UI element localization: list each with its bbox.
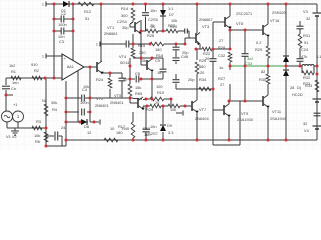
node grn-l bbox=[229, 65, 232, 68]
svg-text:20p: 20p bbox=[188, 77, 195, 82]
node top-G bbox=[196, 3, 199, 6]
node y49c bbox=[229, 48, 232, 51]
wire term stub y122 bbox=[94, 121, 99, 123]
svg-text:VT5: VT5 bbox=[114, 93, 121, 98]
wire d2 stem2 bbox=[162, 16, 164, 32]
resistor R5 bbox=[44, 132, 48, 142]
wire VT1 base bbox=[130, 26, 135, 28]
node y66f bbox=[316, 65, 319, 68]
wire R32 leg left bbox=[301, 66, 303, 73]
svg-text:51: 51 bbox=[85, 16, 89, 21]
svg-text:R22: R22 bbox=[168, 23, 175, 28]
wire V1 top bbox=[5, 95, 7, 111]
svg-text:R26: R26 bbox=[147, 33, 154, 38]
node top-F bbox=[162, 3, 165, 6]
svg-text:R33: R33 bbox=[305, 83, 312, 88]
wire x213 rail bbox=[212, 22, 214, 59]
wire row y146 bbox=[46, 145, 66, 147]
wire VT6 emitter drop bbox=[151, 72, 153, 79]
wire x176 stem2 bbox=[175, 74, 177, 79]
capacitor C5 bbox=[81, 109, 83, 116]
svg-text:10k: 10k bbox=[34, 133, 40, 138]
wire VT2 up link bbox=[143, 98, 146, 101]
svg-text:C3: C3 bbox=[59, 39, 64, 44]
wire C6 leg down bbox=[61, 136, 63, 146]
wire c12 stem bbox=[145, 4, 147, 12]
wire row y58 bbox=[133, 57, 163, 59]
wire net C33 (green) bbox=[230, 65, 286, 67]
svg-text:C8: C8 bbox=[135, 71, 140, 76]
svg-text:R19: R19 bbox=[157, 90, 164, 95]
svg-text:VT16: VT16 bbox=[270, 18, 279, 23]
wire C30 out bbox=[187, 30, 189, 32]
svg-text:Cn: Cn bbox=[11, 86, 16, 91]
wire R31 chain bbox=[299, 29, 301, 34]
wire C30 jog bbox=[188, 31, 190, 38]
svg-text:100n: 100n bbox=[58, 22, 67, 27]
wire row y44 right bbox=[164, 43, 185, 45]
wire C2 link right bbox=[64, 18, 73, 20]
wire row y122 bbox=[66, 121, 80, 123]
svg-text:R2: R2 bbox=[34, 68, 39, 73]
wire VT16e drop bbox=[267, 36, 269, 46]
resistor R35 bbox=[199, 87, 211, 91]
node top-A bbox=[53, 3, 56, 6]
wire row y99 mid bbox=[146, 98, 150, 100]
wire V bottom row bbox=[6, 122, 8, 128]
svg-text:0.2: 0.2 bbox=[256, 40, 261, 45]
wire row y122b bbox=[90, 121, 94, 123]
svg-text:C2S5: C2S5 bbox=[148, 17, 158, 22]
svg-text:C2S7: C2S7 bbox=[148, 131, 158, 136]
wire row y112 bbox=[66, 111, 79, 113]
svg-text:D9: D9 bbox=[167, 123, 172, 128]
svg-text:910: 910 bbox=[31, 62, 38, 67]
node y30b bbox=[244, 29, 247, 32]
resistor R21 bbox=[150, 104, 161, 108]
resistor R2 bbox=[32, 76, 42, 80]
diode D4 bbox=[283, 70, 289, 76]
node c2l bbox=[53, 18, 56, 21]
svg-text:D8: D8 bbox=[84, 124, 89, 129]
wire VT5 emitter drop bbox=[199, 44, 201, 49]
wire row y106b bbox=[161, 105, 168, 107]
wire C1 stem2 bbox=[5, 90, 7, 95]
wire d2 stem bbox=[162, 4, 164, 11]
wire R5 rail bbox=[45, 128, 47, 146]
wire VT9 collector bbox=[228, 101, 230, 104]
resistor R24 bbox=[108, 78, 112, 88]
wire left cap rail x54 bbox=[53, 4, 55, 78]
svg-text:C46: C46 bbox=[181, 54, 188, 59]
capacitor C8 bbox=[135, 76, 137, 83]
node bot-e bbox=[196, 139, 199, 142]
svg-text:1k2: 1k2 bbox=[9, 63, 15, 68]
wire C1 stem bbox=[5, 78, 7, 85]
wire vt8 coll bbox=[229, 14, 231, 16]
wire C stem x122 bbox=[121, 73, 123, 78]
resistor R26 bbox=[146, 29, 158, 33]
wire bottom bus bbox=[66, 139, 317, 141]
wire x141 rail bbox=[140, 31, 142, 65]
wire x163 drop2 bbox=[162, 132, 164, 140]
node y106b bbox=[162, 105, 165, 108]
node grn-r bbox=[267, 65, 270, 68]
wire row y49 bbox=[196, 48, 202, 50]
capacitor C10 bbox=[160, 68, 167, 70]
wire L1 right bbox=[314, 65, 317, 67]
wire R17 bot bbox=[132, 138, 134, 140]
svg-text:0D14: 0D14 bbox=[120, 60, 130, 65]
capacitor C3 bbox=[60, 28, 62, 35]
svg-text:R24: R24 bbox=[96, 77, 104, 82]
svg-text:V1 V2: V1 V2 bbox=[6, 134, 17, 139]
wire row y73 bbox=[101, 72, 122, 74]
capacitor C4 bbox=[81, 95, 83, 102]
wire x163 link bbox=[162, 58, 164, 69]
capacitor C9 bbox=[125, 41, 127, 48]
node y44m bbox=[149, 43, 152, 46]
svg-text:HC2Ω: HC2Ω bbox=[292, 92, 303, 97]
resistor R14 bbox=[131, 8, 135, 20]
node r32r bbox=[316, 73, 319, 76]
diode D9 bbox=[160, 125, 166, 131]
node vt1c bbox=[140, 30, 143, 33]
node y66e bbox=[299, 65, 302, 68]
resistor R31 bbox=[298, 34, 302, 48]
capacitor C1 bbox=[2, 85, 10, 87]
wire C27 stem2 bbox=[145, 132, 147, 140]
wire VT4 emitter drop bbox=[100, 72, 102, 73]
wire row y79b bbox=[140, 78, 163, 80]
wire mid row y66 bbox=[286, 65, 300, 67]
svg-text:2N6401: 2N6401 bbox=[95, 103, 109, 108]
svg-text:30k: 30k bbox=[51, 100, 57, 105]
svg-text:2N5401: 2N5401 bbox=[110, 100, 124, 105]
svg-text:2N6661: 2N6661 bbox=[104, 31, 118, 36]
resistor R15 bbox=[131, 48, 135, 58]
transistor VT16 bbox=[262, 25, 264, 35]
svg-text:R65: R65 bbox=[135, 91, 142, 96]
svg-text:1u: 1u bbox=[157, 70, 161, 75]
wire x230 rail4 bbox=[229, 84, 231, 101]
wire x230 rail2 bbox=[229, 62, 231, 66]
wire R14 jog bbox=[130, 22, 133, 24]
battery V4 bbox=[313, 125, 321, 127]
node r2r bbox=[44, 77, 47, 80]
node y99l bbox=[145, 98, 148, 101]
wire y44 to base bbox=[184, 38, 186, 44]
wire L1 left bbox=[300, 65, 302, 67]
svg-text:27: 27 bbox=[219, 38, 223, 43]
svg-text:C33: C33 bbox=[245, 61, 252, 66]
wire row y128 bbox=[7, 127, 46, 129]
wire input term wire bbox=[46, 55, 62, 57]
capacitor C11 bbox=[242, 53, 249, 55]
svg-text:230: 230 bbox=[139, 50, 146, 55]
svg-text:VT4: VT4 bbox=[119, 54, 127, 59]
wire C6 leg right bbox=[59, 135, 63, 137]
capacitor C2 bbox=[60, 16, 62, 23]
wire x268 rail bbox=[267, 58, 269, 66]
wire x130 rail mid bbox=[129, 58, 131, 84]
node y58m bbox=[151, 57, 154, 60]
wire x66 join bbox=[65, 140, 67, 146]
transistor VT9 bbox=[223, 105, 225, 115]
wire x245 rail bbox=[244, 30, 246, 54]
diode D2 bbox=[160, 10, 166, 16]
svg-text:1en: 1en bbox=[12, 80, 19, 85]
node y79c bbox=[151, 78, 154, 81]
diode D5 bbox=[81, 119, 87, 125]
svg-text:R12: R12 bbox=[84, 9, 91, 14]
wire VT6 base bbox=[141, 64, 147, 66]
wire VT5 collector bbox=[196, 4, 198, 33]
node y66d bbox=[285, 65, 288, 68]
capacitor C13 bbox=[297, 25, 304, 27]
wire V2 bottom bbox=[17, 122, 19, 128]
svg-text:R34: R34 bbox=[199, 77, 207, 82]
wire x176 stem bbox=[175, 44, 177, 47]
wire x152 drop bbox=[151, 79, 153, 99]
node opamp-out bbox=[89, 66, 92, 69]
node bot-a bbox=[132, 139, 135, 142]
svg-text:R1: R1 bbox=[11, 69, 16, 74]
wire x286 rail2 bbox=[285, 78, 287, 140]
wire x268 upper bbox=[267, 4, 269, 24]
svg-text:R25: R25 bbox=[199, 58, 206, 63]
wire row y79 bbox=[130, 78, 135, 80]
node y99r bbox=[170, 98, 173, 101]
svg-text:1: 1 bbox=[42, 55, 44, 59]
wire R31 chain2 bbox=[299, 48, 301, 58]
capacitor C32 bbox=[210, 58, 217, 60]
diode D3 bbox=[283, 56, 289, 62]
wire wrap down bbox=[239, 101, 241, 145]
svg-text:100n: 100n bbox=[80, 100, 89, 105]
resistor R29 bbox=[266, 46, 270, 58]
capacitor C17 bbox=[173, 46, 180, 48]
transistor VT5 bbox=[195, 33, 197, 43]
svg-text:2N6404: 2N6404 bbox=[195, 116, 209, 121]
node y122a bbox=[65, 121, 68, 124]
wire opamp out bbox=[84, 66, 97, 68]
source V1 bbox=[2, 111, 13, 122]
wire x133 rail bbox=[132, 34, 134, 48]
wire C6 leg top bbox=[46, 135, 54, 137]
node y101a bbox=[228, 100, 231, 103]
transistor VT1 bbox=[134, 22, 136, 32]
node y79a bbox=[129, 78, 132, 81]
node x130y66 bbox=[129, 65, 132, 68]
svg-text:V4: V4 bbox=[304, 128, 310, 133]
node bot-b bbox=[145, 139, 148, 142]
wire cap2 to node bbox=[129, 43, 133, 45]
svg-text:12: 12 bbox=[87, 130, 91, 135]
battery V5 bbox=[313, 98, 321, 100]
svg-text:R4: R4 bbox=[52, 107, 58, 112]
node y44c bbox=[175, 43, 178, 46]
wire row y31 mid bbox=[158, 30, 166, 32]
wire C27 stem bbox=[145, 106, 147, 129]
node in-minus bbox=[53, 77, 56, 80]
resistor R16 bbox=[128, 84, 132, 96]
svg-text:1: 1 bbox=[96, 43, 98, 47]
source V2 bbox=[13, 111, 24, 122]
svg-text:C32: C32 bbox=[218, 53, 225, 58]
node y30a bbox=[229, 29, 232, 32]
svg-text:VT2: VT2 bbox=[96, 96, 103, 101]
capacitor C30 bbox=[184, 29, 186, 34]
wire VT2 down tail bbox=[142, 107, 144, 111]
wire diode row y122 link bbox=[84, 121, 88, 123]
svg-text:Mp: Mp bbox=[123, 76, 128, 81]
svg-text:C24: C24 bbox=[301, 47, 309, 52]
wire R4 rail bbox=[45, 78, 47, 128]
ground bbox=[11, 130, 19, 132]
wire x163 link2 bbox=[162, 72, 164, 79]
svg-text:10k: 10k bbox=[140, 58, 146, 63]
wire x176 mid bbox=[175, 51, 177, 58]
resistor R3 bbox=[32, 126, 42, 130]
capacitor C6 bbox=[54, 132, 56, 141]
wire C2 link left bbox=[54, 18, 61, 20]
node y140l bbox=[65, 139, 68, 142]
svg-text:+1: +1 bbox=[13, 102, 17, 107]
wire row y98 bbox=[66, 97, 81, 99]
transistor VT6 bbox=[146, 60, 148, 70]
wire input2 to cap bbox=[100, 43, 126, 45]
wire VT7 emit rail bbox=[196, 112, 198, 140]
node grn-m bbox=[244, 65, 247, 68]
node bot-d bbox=[228, 139, 231, 142]
svg-text:82: 82 bbox=[261, 69, 265, 74]
wire row y31 right bbox=[178, 30, 185, 32]
wire VT2 base bbox=[130, 102, 138, 104]
wire row y30 bbox=[230, 29, 263, 31]
capacitor C24 bbox=[297, 58, 304, 60]
resistor R32 bbox=[302, 71, 314, 75]
wire node stub bbox=[6, 94, 13, 96]
svg-text:300: 300 bbox=[121, 13, 128, 18]
svg-text:47k: 47k bbox=[301, 54, 307, 59]
wire gnd stem bbox=[14, 128, 16, 131]
node y89 bbox=[212, 88, 215, 91]
wire x66 rail bbox=[65, 81, 67, 140]
wire x130 rail mid2 bbox=[129, 96, 131, 103]
node y122c bbox=[93, 121, 96, 124]
svg-text:6: 6 bbox=[306, 68, 308, 73]
transistor VT8 bbox=[224, 17, 226, 27]
wire x268 lower bbox=[267, 107, 269, 140]
node y31r bbox=[162, 30, 165, 33]
wire x196 rail2 bbox=[196, 74, 198, 89]
node c3l bbox=[53, 30, 56, 33]
op-amp DA1 bbox=[62, 54, 84, 80]
node top-I bbox=[267, 3, 270, 6]
svg-text:3.3: 3.3 bbox=[168, 130, 173, 135]
node vin bbox=[5, 94, 8, 97]
wire x176 stub bbox=[175, 62, 177, 65]
svg-text:R31: R31 bbox=[303, 33, 310, 38]
wire c12 stem2 bbox=[145, 17, 147, 32]
wire VT7 coll rail bbox=[196, 89, 198, 100]
wire row y49b bbox=[212, 48, 230, 50]
wire x245 rail2 bbox=[244, 56, 246, 101]
resistor R25v bbox=[195, 62, 199, 74]
node y99m bbox=[151, 98, 154, 101]
node top-D bbox=[132, 3, 135, 6]
terminal input 1 upper bbox=[45, 2, 47, 7]
wire x268 rail2 bbox=[267, 66, 269, 74]
wire R24 bot bbox=[109, 89, 111, 98]
terminal input 3 bbox=[45, 54, 47, 59]
wire x268 rail3 bbox=[267, 84, 269, 95]
node y112a bbox=[65, 111, 68, 114]
wire VT9 emitter bbox=[228, 116, 230, 140]
wire x90 rail bbox=[89, 67, 91, 122]
svg-text:15k: 15k bbox=[135, 85, 141, 90]
wire vt8 base bbox=[213, 21, 225, 23]
wire input row y78 bbox=[6, 77, 62, 79]
wire right rail upper bbox=[316, 4, 318, 13]
node r3r bbox=[45, 127, 48, 130]
svg-text:10k: 10k bbox=[83, 84, 89, 89]
svg-text:L1: L1 bbox=[317, 54, 321, 59]
svg-text:R32: R32 bbox=[303, 75, 310, 80]
wire VT1 collector drop bbox=[140, 20, 142, 31]
node y106c bbox=[184, 105, 187, 108]
svg-text:1u: 1u bbox=[219, 65, 223, 70]
resistor R4 bbox=[44, 104, 48, 116]
wire x163 drop bbox=[162, 106, 164, 124]
wire VT1 base lead bbox=[129, 24, 131, 27]
wire VT8e drop bbox=[229, 26, 231, 30]
wire VT9 base bbox=[213, 109, 224, 111]
wire C3 link right bbox=[64, 30, 73, 32]
svg-text:C9: C9 bbox=[155, 58, 160, 63]
capacitor C15 bbox=[173, 57, 180, 59]
svg-text:VT8: VT8 bbox=[236, 21, 243, 26]
svg-text:10k: 10k bbox=[170, 107, 176, 112]
wire x176 stub2 bbox=[175, 84, 177, 90]
svg-text:1:1: 1:1 bbox=[168, 6, 173, 11]
wire C3 link left bbox=[54, 30, 61, 32]
resistor R22a bbox=[166, 29, 178, 33]
wire x196 rail bbox=[196, 49, 198, 60]
svg-text:VT11: VT11 bbox=[272, 109, 281, 114]
svg-text:100: 100 bbox=[156, 84, 163, 89]
svg-text:2SK520: 2SK520 bbox=[272, 10, 287, 15]
node top-B bbox=[72, 3, 75, 6]
node y44r bbox=[184, 43, 187, 46]
capacitor C27 bbox=[143, 128, 150, 130]
resistor R17 bbox=[131, 122, 135, 138]
wire VT8 base row bbox=[185, 37, 196, 39]
svg-text:D7: D7 bbox=[169, 12, 174, 17]
svg-text:32: 32 bbox=[303, 121, 307, 126]
terminal t113 bbox=[182, 111, 184, 116]
svg-text:2SA1930: 2SA1930 bbox=[237, 117, 254, 122]
wire feedback rail x73 bbox=[72, 4, 74, 61]
wire x213 rail2 bbox=[212, 61, 214, 110]
svg-text:R30: R30 bbox=[259, 77, 267, 82]
svg-text:R29: R29 bbox=[146, 107, 153, 112]
resistor R28 bbox=[228, 52, 232, 62]
transistor VT4 bbox=[96, 62, 98, 72]
inductor L1 bbox=[302, 65, 314, 67]
capacitor C12 bbox=[142, 12, 149, 14]
